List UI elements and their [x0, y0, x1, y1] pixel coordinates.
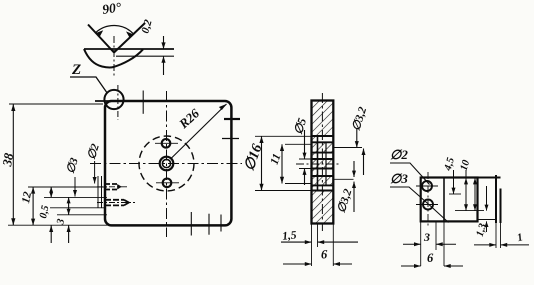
svg-text:90°: 90° — [101, 0, 122, 17]
dia5 dimension: outside arrows — [303, 130, 307, 185]
front view: upper small hole horizontal stub — [155, 142, 178, 144]
front view: lower small hole — [163, 179, 172, 188]
section view: centerline horizontal — [296, 163, 341, 165]
section view: inner vertical line — [325, 142, 327, 185]
dia3.2 top dimension: arrow up from below — [362, 149, 366, 176]
dimension 12: dimension line with arrows — [31, 187, 35, 225]
detail Z: freehand break boundary (bowl) — [84, 49, 143, 68]
front view: center hole inner circle — [162, 159, 170, 167]
label dia3 right: shelf and leader — [390, 187, 449, 223]
svg-text:6: 6 — [427, 251, 434, 265]
front view: lower side hole centerline — [97, 202, 135, 204]
detail Z: balloon vertical centerline stub — [117, 85, 119, 120]
dimension 11: extension lines — [285, 143, 312, 145]
side view: hole vertical centerline — [427, 172, 429, 227]
dimension 38: extension line bottom — [8, 224, 110, 226]
dimension 0.5: dimension line with arrows — [49, 187, 53, 197]
front view: vertical centerline — [166, 91, 168, 237]
dimension 6 (section): arrows — [283, 262, 352, 266]
side view: small plate outline — [421, 178, 478, 222]
svg-text:1,5: 1,5 — [282, 229, 298, 242]
svg-text:3: 3 — [423, 230, 430, 244]
detail Z: 90-degree countersink V left flank — [88, 25, 114, 53]
auxiliary up-arrow below bottom edge at x51 — [49, 225, 53, 243]
section view: bar outline — [312, 101, 334, 224]
section bottom: extension verticals — [311, 224, 313, 267]
side view: top edge extension to thin tab — [478, 177, 501, 179]
front view: extension verticals near left edge — [97, 176, 99, 208]
extension line y214.8 — [57, 214, 107, 216]
dimension 3 (side view): arrows — [403, 242, 456, 246]
extension line y197.4 — [44, 196, 107, 198]
detail Z: balloon circle on plate corner — [104, 90, 123, 109]
dia16 dimension: extension lines — [255, 135, 312, 137]
label dia2 right: shelf and leader — [390, 163, 430, 185]
front view: R26 leader with arrowhead — [171, 104, 227, 159]
dimension 3: dimension line with arrows — [67, 197, 71, 214]
front view: ticks on bottom edge — [190, 212, 192, 236]
detail Z: top surface line — [84, 48, 174, 50]
extension line y210.6 — [455, 210, 484, 212]
side view: bottom edge extension right — [478, 219, 497, 221]
dia3.2 top dimension: arrow down — [355, 129, 359, 148]
front view: horizontal centerline — [90, 163, 242, 165]
svg-text:Z: Z — [71, 62, 81, 78]
dimension 38: extension line top — [9, 103, 103, 105]
section view: centerline vertical — [321, 93, 323, 231]
extension line y207.8 — [50, 207, 106, 209]
dimension 1: arrows — [474, 243, 529, 247]
dia3.2 top dimension: extension line to hole centre — [333, 147, 362, 149]
auxiliary up-arrow below bottom edge at x68 — [67, 225, 71, 243]
dimension 1.3: arrows — [485, 186, 489, 232]
dimension 6 (side view): arrows — [401, 264, 463, 268]
detail Z: recessed surface line — [116, 55, 174, 57]
dimension 4.5: arrow down — [452, 170, 456, 194]
svg-text:6: 6 — [321, 248, 328, 262]
front view: tick on top edge — [142, 91, 144, 114]
dimension 10: dimension line with arrows — [464, 170, 468, 211]
svg-text:∅2: ∅2 — [390, 147, 408, 162]
section view: counterbore vertical line — [317, 136, 319, 191]
svg-text:∅3: ∅3 — [390, 171, 408, 186]
dia5 dimension: extension lines — [299, 158, 318, 160]
dia3.2 bottom dimension: arrow up — [352, 182, 356, 212]
front view: ticks on right edge — [224, 118, 240, 120]
dimension 11: dimension line with arrows — [280, 144, 284, 183]
extension line y187 — [28, 186, 107, 188]
dia16 dimension: dimension line with arrows — [259, 136, 263, 190]
dimension 38: dimension line with arrows — [11, 104, 15, 225]
dia3.2 bottom dimension: extension line — [333, 178, 353, 180]
label dia3 left: leader arrow — [73, 177, 77, 197]
dimension 1.5: arrows — [281, 240, 358, 244]
side view: thin contact pair of verticals — [495, 175, 497, 223]
side view: internal vertical line — [443, 178, 445, 222]
front view: center hole outer circle — [160, 157, 174, 171]
detail Z: 90-degree countersink V right flank — [114, 23, 145, 53]
side view: hole horizontal stubs — [416, 185, 438, 187]
detail Z: leader shelf from Z to balloon — [70, 77, 108, 94]
front view: dashed reference circle — [139, 136, 194, 191]
detail Z: angular dimension arc with arrowheads — [95, 26, 134, 38]
front view: plate outline — [105, 101, 231, 225]
detail Z: depth 0.2 dimension arrows — [161, 36, 165, 75]
label dia2 left: leader arrow — [93, 161, 97, 184]
front view: upper side hole centerline — [97, 186, 129, 188]
front view: lower small hole horizontal stub — [156, 182, 179, 184]
extension verticals for dimension 1 — [495, 223, 497, 248]
bottom extension verticals of side view — [420, 221, 422, 266]
detail Z: vertical centerline — [113, 36, 115, 77]
extension tick y194 — [449, 193, 461, 195]
front view: upper side-drilled hole outline — [105, 184, 122, 190]
side view: upper hole — [422, 181, 432, 191]
front view: upper small hole — [162, 139, 171, 148]
dia3.2 bottom dimension: arrow down — [352, 161, 356, 177]
side view: lower hole — [423, 200, 433, 210]
section view: horizontal hole lines across bar — [312, 136, 334, 191]
section view: hatched body — [312, 101, 334, 224]
auxiliary arrowed line x475 — [473, 178, 477, 211]
detail Z: plate edge passing through balloon — [95, 100, 124, 102]
front view: lower side-drilled hole outline — [105, 200, 129, 206]
